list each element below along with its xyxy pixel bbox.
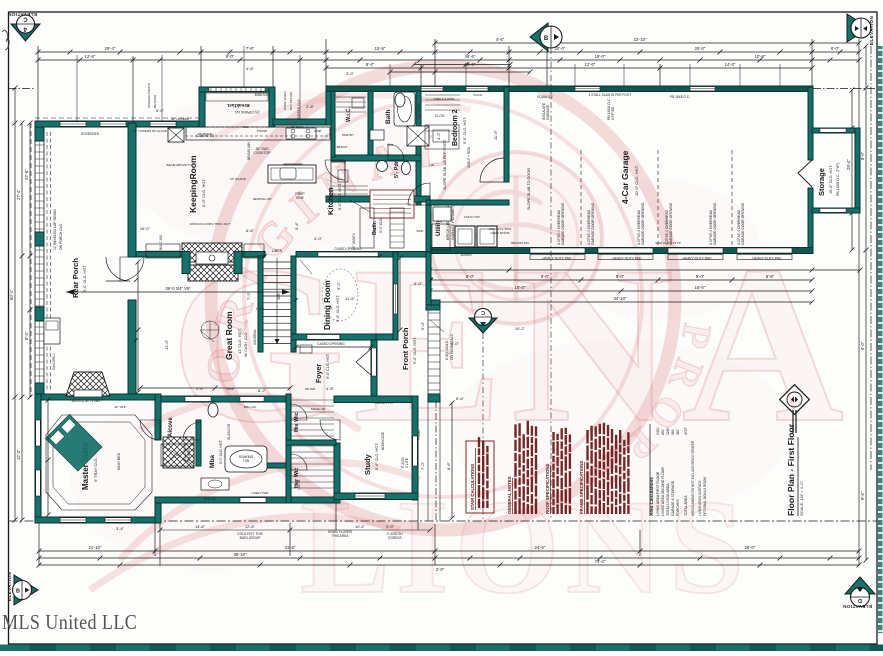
extension line thin xyxy=(739,64,741,86)
svg-text:5'-4": 5'-4" xyxy=(294,221,299,230)
dim line xyxy=(29,123,31,397)
svg-text:PORCHES: PORCHES xyxy=(676,498,680,516)
window xyxy=(575,87,600,91)
svg-text:APRON: APRON xyxy=(460,253,471,257)
fireplace side L xyxy=(182,252,190,274)
cooktop xyxy=(286,128,316,139)
wall garage east upper xyxy=(808,87,813,160)
svg-text:GARAGE & STORAGE: GARAGE & STORAGE xyxy=(671,480,675,516)
svg-text:MANTLE W/ TV ABV: MANTLE W/ TV ABV xyxy=(72,399,102,403)
svg-text:10'-5": 10'-5" xyxy=(355,525,365,529)
svg-text:LIVING AREA SECOND FLOOR: LIVING AREA SECOND FLOOR xyxy=(661,466,665,516)
title line xyxy=(792,410,794,433)
master window xyxy=(36,420,41,446)
wall utility west xyxy=(426,200,431,252)
svg-text:4'-6": 4'-6" xyxy=(246,66,255,71)
bedroom2 door arc xyxy=(480,158,504,182)
svg-text:TILE FLR: TILE FLR xyxy=(203,497,217,501)
mba vanity xyxy=(201,478,229,490)
svg-text:SEATING OH: SEATING OH xyxy=(253,197,272,201)
extension line thin xyxy=(389,64,391,86)
svg-text:12'-0": 12'-0" xyxy=(164,339,169,350)
title marker diamond xyxy=(780,385,810,415)
bath tub top xyxy=(394,92,415,126)
svg-text:SCALE: 1/4" = 1'-0": SCALE: 1/4" = 1'-0" xyxy=(799,481,804,516)
svg-text:DISP: DISP xyxy=(314,129,321,133)
master fireplace xyxy=(66,372,110,396)
dim line xyxy=(326,67,812,69)
soaking tub xyxy=(225,446,267,472)
fridge boxes right xyxy=(407,126,429,146)
wall keeping west xyxy=(128,123,136,257)
svg-text:60'-1": 60'-1" xyxy=(9,289,14,300)
extension line xyxy=(132,56,134,123)
great room clg fan xyxy=(201,321,219,339)
svg-text:ELEVATION: ELEVATION xyxy=(843,604,872,609)
bath toilet xyxy=(395,93,405,107)
porch steps east xyxy=(428,300,440,400)
wall garage east lower xyxy=(808,188,813,253)
svg-text:LIVING AREA SURFACE: LIVING AREA SURFACE xyxy=(698,480,702,516)
pdr sink circle xyxy=(377,161,388,172)
svg-text:2'-0": 2'-0" xyxy=(436,567,445,572)
svg-text:19'-0": 19'-0" xyxy=(595,54,606,59)
svg-text:Study: Study xyxy=(363,453,372,475)
svg-text:16'-0": 16'-0" xyxy=(515,285,526,290)
svg-text:SHELF + ROD: SHELF + ROD xyxy=(467,146,471,168)
wall breakfast bay west xyxy=(199,87,205,127)
svg-text:GARAGE DOOR OPENING: GARAGE DOOR OPENING xyxy=(669,202,673,245)
porch screen line a xyxy=(46,132,48,390)
svg-text:Breakfast.: Breakfast. xyxy=(226,102,249,108)
dim line xyxy=(430,290,812,292)
svg-text:SCREEN PORCH: SCREEN PORCH xyxy=(147,83,151,108)
storage window bottom xyxy=(820,209,846,213)
door arc bath xyxy=(388,144,404,160)
watermark outer ring xyxy=(211,66,675,530)
svg-text:10'-0" CLG. HGT.: 10'-0" CLG. HGT. xyxy=(634,165,639,196)
svg-text:8'-4": 8'-4" xyxy=(24,331,29,340)
wall porch west upper xyxy=(426,252,431,308)
bed2 closet lines xyxy=(425,94,460,96)
svg-text:9' TRAY CLG.: 9' TRAY CLG. xyxy=(93,457,98,482)
window xyxy=(690,87,715,91)
dim line xyxy=(140,387,290,389)
wall bedroom2 east xyxy=(504,87,509,182)
wall breakfast bay east xyxy=(269,87,275,127)
svg-text:KING BED: KING BED xyxy=(117,452,121,470)
fixture box xyxy=(338,170,348,182)
porch step top xyxy=(426,305,440,310)
svg-text:(9) 1'SPANS LVL: (9) 1'SPANS LVL xyxy=(234,110,259,114)
dim line xyxy=(39,550,859,552)
svg-text:11'-6": 11'-6" xyxy=(493,130,498,140)
wall step SW xyxy=(155,503,161,523)
master window xyxy=(36,470,41,496)
svg-text:SAW CUT CJ TYP: SAW CUT CJ TYP xyxy=(655,241,681,245)
svg-text:8'-2": 8'-2" xyxy=(258,388,267,393)
svg-text:9'-0": 9'-0" xyxy=(256,306,265,311)
svg-text:3'-4": 3'-4" xyxy=(116,526,125,531)
wic south window xyxy=(240,498,266,503)
wall storage south xyxy=(812,208,860,213)
garage door opening xyxy=(530,248,585,253)
svg-text:4'-2": 4'-2" xyxy=(436,131,441,140)
wall bath east xyxy=(416,91,421,205)
linen cabinet box xyxy=(433,207,451,221)
wall garage south xyxy=(431,248,813,254)
tray ceiling octagon xyxy=(46,415,152,510)
keeping fireplace hatch xyxy=(182,243,242,262)
wic shelf line xyxy=(336,101,366,103)
extension line xyxy=(508,46,510,88)
master shower xyxy=(163,437,194,468)
wall stair west xyxy=(258,256,263,352)
wall utility north xyxy=(426,200,509,205)
bay window hatch xyxy=(209,88,265,92)
svg-text:Bath: Bath xyxy=(385,110,392,124)
svg-text:BUILT-INS: BUILT-INS xyxy=(159,235,163,250)
watermark emblem scribbles xyxy=(470,176,565,300)
svg-text:BEAMS ABV: BEAMS ABV xyxy=(247,141,251,160)
svg-text:12' CLG. HGT.: 12' CLG. HGT. xyxy=(237,328,242,354)
svg-text:ELEVATION: ELEVATION xyxy=(8,12,37,17)
svg-text:8'-0": 8'-0" xyxy=(860,151,865,160)
svg-text:5'-0": 5'-0" xyxy=(414,281,423,286)
rear porch west wall brick hatch xyxy=(35,127,44,397)
wall great room west xyxy=(128,300,136,397)
svg-text:5'-0": 5'-0" xyxy=(156,108,165,113)
extension line xyxy=(335,503,337,530)
dim line xyxy=(851,90,853,250)
svg-text:HEAVY DUTY PAD: HEAVY DUTY PAD xyxy=(543,257,573,261)
keeping room built-in right of fireplace xyxy=(244,244,264,258)
svg-text:9'-0": 9'-0" xyxy=(696,274,705,279)
svg-text:TILE: TILE xyxy=(387,143,394,147)
svg-text:GARAGE DOOR OPENING: GARAGE DOOR OPENING xyxy=(561,202,565,245)
svg-text:W/ CATH. CLG.: W/ CATH. CLG. xyxy=(244,332,248,357)
svg-text:OPTIONAL BONUS ROOM: OPTIONAL BONUS ROOM xyxy=(703,477,707,516)
svg-text:4727: 4727 xyxy=(684,427,688,435)
svg-text:11'-6": 11'-6" xyxy=(345,296,355,301)
extension line xyxy=(639,530,641,556)
svg-text:MAKE-UP: MAKE-UP xyxy=(311,407,325,411)
bottom teal strip xyxy=(0,645,883,652)
svg-text:LIVING AREA FIRST FLOOR: LIVING AREA FIRST FLOOR xyxy=(656,471,660,516)
dim line xyxy=(865,46,867,560)
wall mba south div xyxy=(230,463,286,468)
wall kitchen NW jog xyxy=(326,86,331,125)
svg-text:CROWN TYP: CROWN TYP xyxy=(375,401,394,405)
dim line xyxy=(296,346,371,348)
dash-dot setback left xyxy=(9,88,36,90)
dim line xyxy=(21,123,23,520)
svg-text:14'-0": 14'-0" xyxy=(725,62,736,67)
door arc her wic xyxy=(291,454,307,470)
MLS United LLC watermark text xyxy=(2,611,137,635)
extension line xyxy=(858,560,860,565)
svg-text:Dining Room: Dining Room xyxy=(323,280,332,330)
alcove cabinet xyxy=(161,444,194,466)
svg-text:4 STALL SLAB 25 PER FOOT: 4 STALL SLAB 25 PER FOOT xyxy=(589,93,632,97)
extension line xyxy=(434,39,436,88)
door arc his wic xyxy=(291,404,307,420)
dim line xyxy=(38,59,859,61)
kitchen upper cabinets dashed xyxy=(186,127,330,136)
svg-text:B: B xyxy=(16,589,20,595)
wall hall south xyxy=(326,196,430,202)
extension line thin xyxy=(76,55,78,121)
svg-text:12'-8": 12'-8" xyxy=(245,524,256,529)
svg-text:Bedroom 2: Bedroom 2 xyxy=(452,109,459,146)
svg-text:BOOKCASE: BOOKCASE xyxy=(381,432,385,450)
watermark pink wash blobs xyxy=(130,90,430,250)
wall master north xyxy=(35,394,161,400)
svg-text:12'-6": 12'-6" xyxy=(85,54,96,59)
svg-text:28'-0": 28'-0" xyxy=(745,545,756,550)
svg-text:6'-0": 6'-0" xyxy=(831,46,840,51)
porch roof overhang line xyxy=(30,123,32,397)
svg-text:9'-0" CLG. HGT.: 9'-0" CLG. HGT. xyxy=(413,337,417,364)
svg-text:29'-4": 29'-4" xyxy=(105,46,116,51)
wall study north xyxy=(334,396,418,403)
dim line xyxy=(39,557,859,559)
svg-text:HEAVY DUTY PAD: HEAVY DUTY PAD xyxy=(613,257,643,261)
svg-text:LINEN: LINEN xyxy=(272,249,283,253)
svg-text:SCREENED: SCREENED xyxy=(81,132,100,136)
svg-text:SS HOOD: SS HOOD xyxy=(198,132,213,136)
keeping room built-in left of fireplace xyxy=(146,244,180,258)
dash-dot front walk xyxy=(435,388,437,521)
garage door opening xyxy=(737,248,792,253)
svg-text:3068: 3068 xyxy=(227,387,234,391)
svg-text:3'-0": 3'-0" xyxy=(346,71,355,76)
sub dim row xyxy=(160,529,430,531)
wall alcove/wic north xyxy=(161,396,286,402)
svg-text:GARAGE PERIMETER: GARAGE PERIMETER xyxy=(451,200,455,240)
svg-text:SHOWER: SHOWER xyxy=(187,447,191,462)
svg-text:LINEN TWR: LINEN TWR xyxy=(252,491,270,495)
svg-text:2 LITE: 2 LITE xyxy=(405,457,409,468)
wall breakfast bay north xyxy=(199,87,275,92)
fireplace side R xyxy=(234,252,242,274)
svg-text:8'-4": 8'-4" xyxy=(366,62,375,67)
svg-text:THIS AREA: THIS AREA xyxy=(332,534,350,538)
alcove north door gap xyxy=(185,397,211,402)
wall storage north xyxy=(812,128,860,133)
svg-text:TRASH: TRASH xyxy=(257,129,268,133)
svg-text:8'-6": 8'-6" xyxy=(456,396,465,401)
svg-text:D: D xyxy=(858,597,862,603)
general notes text xyxy=(514,424,516,514)
svg-text:TOTAL AREA: TOTAL AREA xyxy=(684,495,688,516)
svg-text:10'-2": 10'-2" xyxy=(515,326,526,331)
svg-text:22'-8": 22'-8" xyxy=(24,169,29,180)
elevation marker bottom-right xyxy=(845,577,875,607)
svg-text:PB 16X8 O.C.: PB 16X8 O.C. xyxy=(670,95,690,99)
mba toilet xyxy=(208,403,218,417)
elevation marker top-middle xyxy=(530,23,562,51)
svg-text:9'-0": 9'-0" xyxy=(420,321,425,330)
svg-text:LIN.: LIN. xyxy=(429,163,435,167)
wall foyer east / front wall xyxy=(371,340,377,402)
wall dining east xyxy=(393,252,398,340)
svg-text:SINK: SINK xyxy=(296,196,305,200)
porch column xyxy=(35,383,44,397)
svg-text:9'-0" CLG. HGT.: 9'-0" CLG. HGT. xyxy=(375,443,379,470)
svg-text:9'-0" CLG. HGT.: 9'-0" CLG. HGT. xyxy=(219,440,223,464)
bath sink xyxy=(370,130,384,140)
svg-text:SLOPE SLAB .25 PER FOOT: SLOPE SLAB .25 PER FOOT xyxy=(443,139,447,190)
extension line thin xyxy=(689,64,691,86)
extension line thin xyxy=(574,64,576,86)
dim line xyxy=(430,279,812,281)
extension line xyxy=(289,523,291,556)
wall dining north xyxy=(296,252,431,258)
svg-text:12' BEVELED LAP SIDING: 12' BEVELED LAP SIDING xyxy=(53,209,57,250)
svg-text:GARAGE DOOR OPENING: GARAGE DOOR OPENING xyxy=(713,202,717,245)
svg-text:2430: 2430 xyxy=(656,427,660,435)
svg-text:22'-10": 22'-10" xyxy=(634,37,648,42)
svg-text:2'-8": 2'-8" xyxy=(306,104,315,109)
svg-text:4'-6": 4'-6" xyxy=(496,37,505,42)
door arc study xyxy=(320,420,340,440)
cubby note box xyxy=(370,190,414,218)
stair calc text xyxy=(478,437,480,508)
extension line xyxy=(434,524,436,565)
svg-text:GAS GRILL: GAS GRILL xyxy=(52,353,56,370)
dim line xyxy=(430,301,812,303)
dining north cased opening xyxy=(318,252,378,256)
svg-text:CLOS.: CLOS. xyxy=(435,114,445,118)
svg-text:HD WD: HD WD xyxy=(305,387,316,391)
svg-text:ROOF OVER: ROOF OVER xyxy=(283,91,287,110)
cabinet elevation marker box xyxy=(168,128,184,142)
storage window top xyxy=(820,129,846,133)
wall wic west xyxy=(331,91,335,157)
wall master south xyxy=(35,517,161,523)
svg-text:BAY BELOW: BAY BELOW xyxy=(289,92,293,110)
extension line thin xyxy=(299,55,301,119)
svg-text:4'-0": 4'-0" xyxy=(314,236,323,241)
master south windows xyxy=(60,518,86,523)
window xyxy=(466,87,488,91)
dash-dot right lot line xyxy=(870,46,872,470)
wall keeping room north xyxy=(35,121,201,127)
fireplace opening xyxy=(196,252,228,264)
svg-text:9'-0": 9'-0" xyxy=(226,54,235,59)
svg-text:16R: 16R xyxy=(277,293,281,300)
extension line xyxy=(37,46,39,123)
dim line xyxy=(430,269,860,271)
svg-text:9'-0": 9'-0" xyxy=(616,274,625,279)
dash-dot setback right xyxy=(813,88,877,90)
svg-text:74'-2": 74'-2" xyxy=(595,559,606,564)
porch door gap arc xyxy=(106,257,130,281)
fixture box xyxy=(433,130,449,142)
door arc alcove xyxy=(140,420,160,440)
extension line xyxy=(159,523,161,565)
svg-text:16'-0": 16'-0" xyxy=(140,226,151,231)
svg-text:12'-2": 12'-2" xyxy=(16,449,21,460)
svg-text:850: 850 xyxy=(661,429,665,435)
svg-text:42" UPPERS W/ GLASS: 42" UPPERS W/ GLASS xyxy=(133,129,167,133)
dim line xyxy=(137,262,139,392)
svg-text:10'-8": 10'-8" xyxy=(755,54,766,59)
wall dining SE corner xyxy=(340,334,376,340)
porch column xyxy=(35,127,44,141)
utility counter xyxy=(432,224,450,250)
roof specs text xyxy=(552,432,554,514)
wic shelf line xyxy=(336,96,366,98)
keeping roof overhang line xyxy=(35,117,199,119)
svg-text:9'-0" CLG. HGT.: 9'-0" CLG. HGT. xyxy=(336,295,340,322)
svg-text:F-3030: F-3030 xyxy=(417,430,421,440)
door arc wic xyxy=(325,160,345,180)
svg-text:24'-6": 24'-6" xyxy=(535,545,546,550)
hall closet lines xyxy=(332,185,368,187)
wall bath/wic south xyxy=(155,497,338,503)
svg-text:Kitchen: Kitchen xyxy=(326,187,335,215)
svg-text:12'-0": 12'-0" xyxy=(585,62,596,67)
svg-text:14'-8": 14'-8" xyxy=(195,525,205,529)
wall study south xyxy=(334,493,418,500)
wic north door gap xyxy=(240,397,264,402)
svg-text:WOOD FLOORS THRU-OUT: WOOD FLOORS THRU-OUT xyxy=(190,222,231,226)
kitchen top counter xyxy=(186,127,330,140)
svg-text:Storage: Storage xyxy=(817,168,826,196)
svg-text:3280: 3280 xyxy=(666,427,670,435)
svg-text:TUB: TUB xyxy=(243,459,249,463)
right edge teal strip xyxy=(878,46,883,633)
svg-text:7'-2": 7'-2" xyxy=(246,291,251,300)
svg-text:PANTRY: PANTRY xyxy=(342,133,354,137)
extension line xyxy=(417,500,419,530)
dining east window xyxy=(394,284,398,314)
extension line thin xyxy=(161,55,163,121)
frame specs text 2 xyxy=(611,429,613,514)
svg-text:8'-6": 8'-6" xyxy=(446,461,451,470)
svg-text:GARAGE DOOR OPENING: GARAGE DOOR OPENING xyxy=(741,202,745,245)
svg-text:TILE SURR: TILE SURR xyxy=(417,103,421,120)
keeping clg fan xyxy=(284,164,302,182)
wall wic west xyxy=(286,394,291,503)
svg-text:9'-0" CLG. HGT.: 9'-0" CLG. HGT. xyxy=(326,353,330,379)
dim line xyxy=(399,258,401,330)
svg-text:36" SINK: 36" SINK xyxy=(291,125,305,129)
extension line xyxy=(325,39,327,88)
svg-text:4'-8": 4'-8" xyxy=(326,386,335,391)
wall wic divider xyxy=(286,440,336,445)
svg-text:27'-4": 27'-4" xyxy=(16,189,21,200)
svg-text:45'-6": 45'-6" xyxy=(465,54,476,59)
svg-text:Butlr.: Butlr. xyxy=(372,220,378,235)
wall bath south xyxy=(331,155,421,161)
svg-text:STAIR CALCULATIONS: STAIR CALCULATIONS xyxy=(470,464,475,510)
bedroom2 bed outline xyxy=(425,125,459,149)
svg-text:BATH GROUP: BATH GROUP xyxy=(240,536,261,540)
svg-text:DW: DW xyxy=(243,125,248,129)
wall bath west xyxy=(368,91,373,161)
svg-text:34'-10": 34'-10" xyxy=(614,296,628,301)
garage-storage door chevron xyxy=(798,160,812,187)
svg-text:GENA: GENA xyxy=(170,219,852,469)
door arc rear porch xyxy=(120,257,144,281)
svg-text:His Wic: His Wic xyxy=(294,412,300,432)
dim line xyxy=(390,71,530,73)
bed diagonal xyxy=(45,414,102,471)
svg-text:6'-8": 6'-8" xyxy=(246,228,255,233)
